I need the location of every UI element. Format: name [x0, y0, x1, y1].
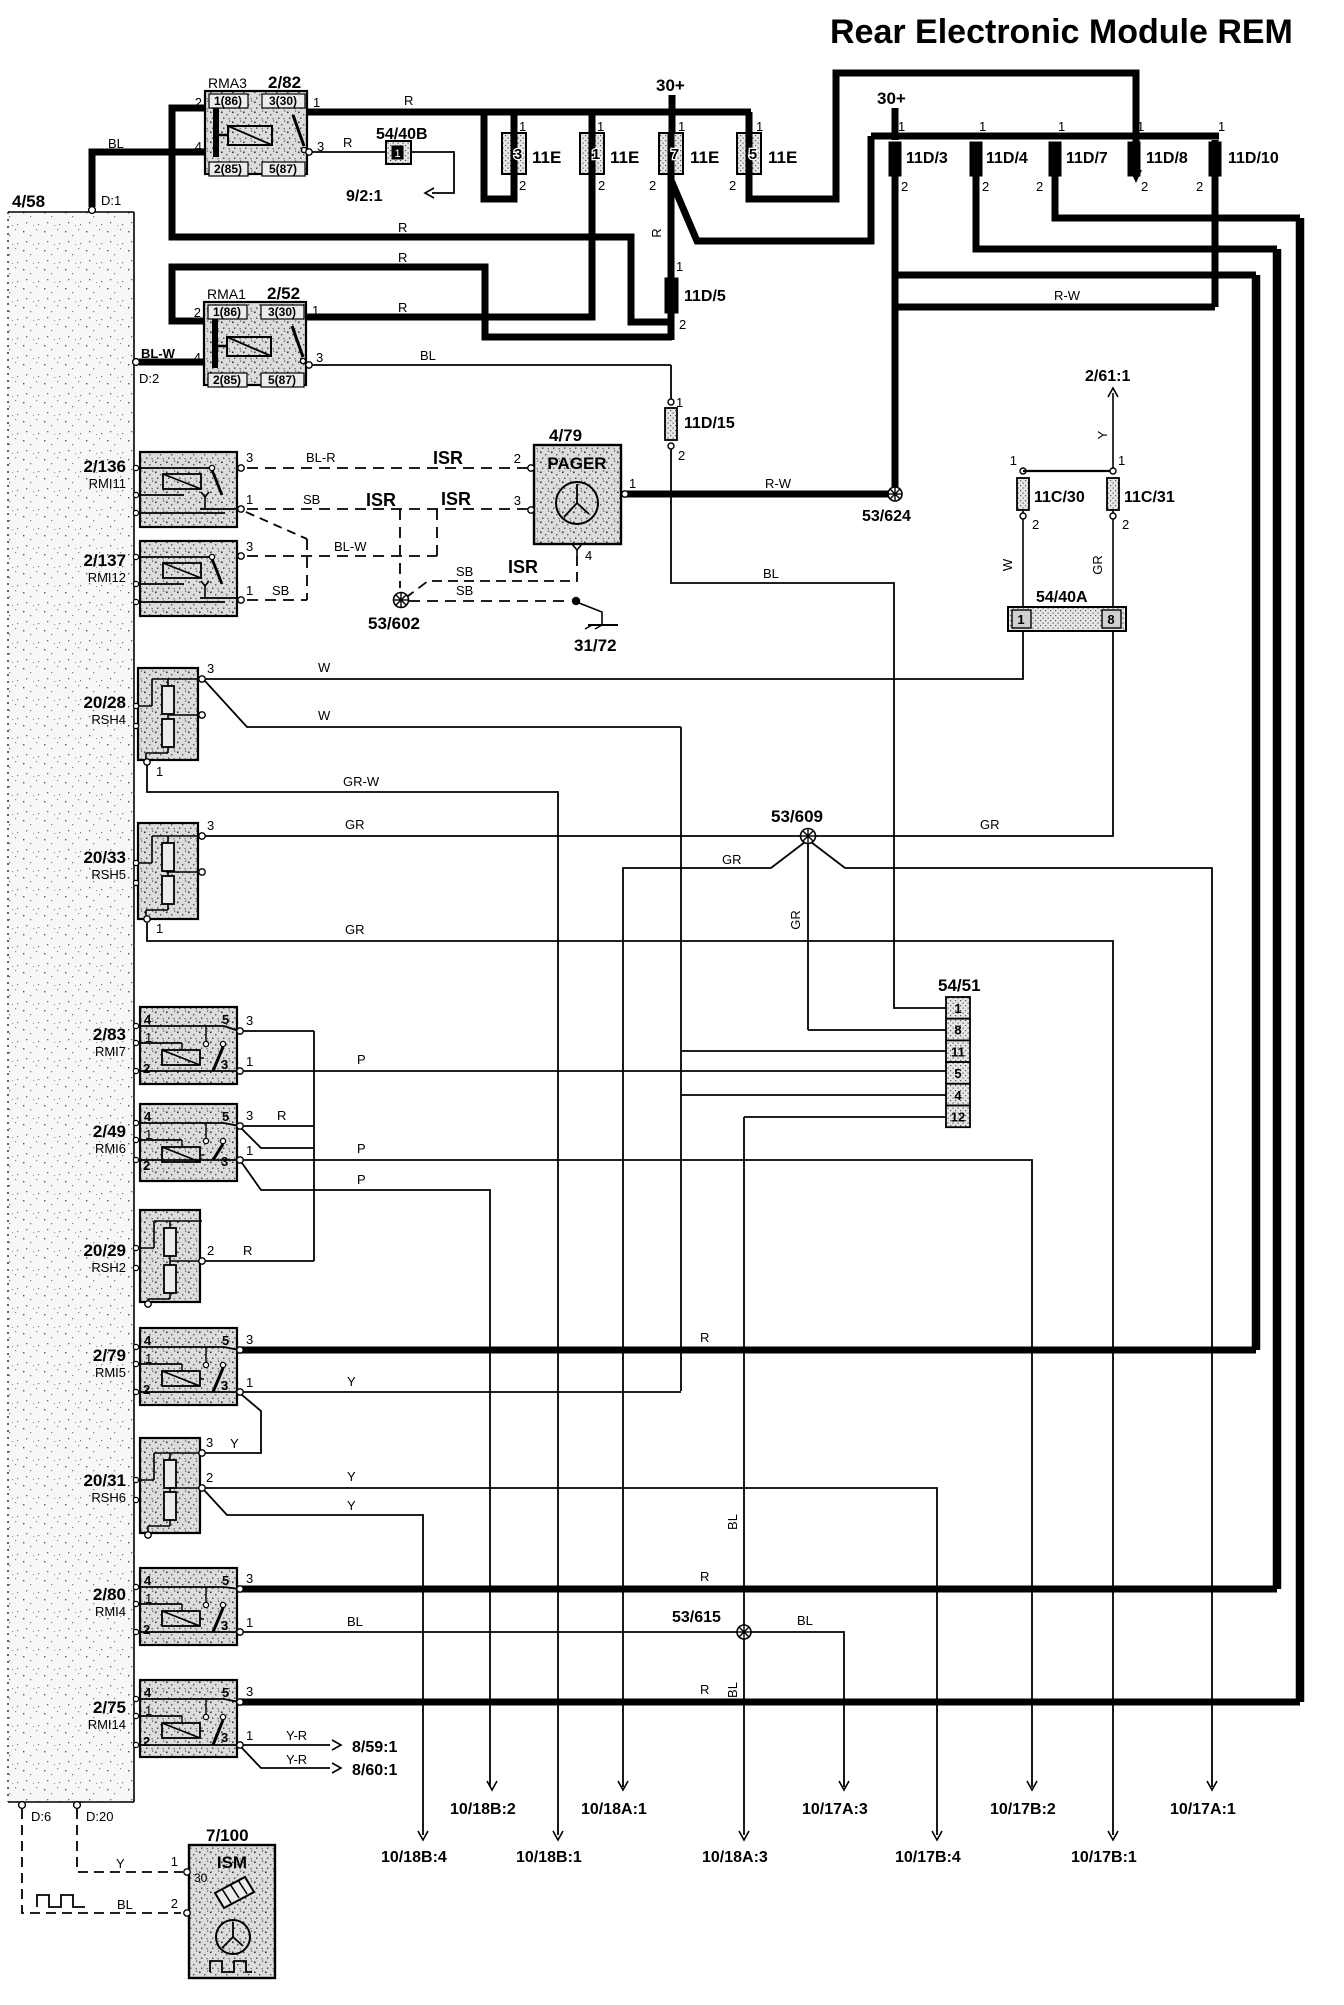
- svg-text:D:2: D:2: [139, 371, 159, 386]
- 54/51 pin 11: [946, 1040, 970, 1062]
- arrow to 10/18A:3: [739, 1831, 749, 1840]
- svg-text:RMA3: RMA3: [208, 75, 247, 91]
- svg-text:R-W: R-W: [1054, 288, 1081, 303]
- svg-text:2: 2: [1036, 179, 1043, 194]
- svg-text:12: 12: [951, 1110, 965, 1125]
- switch contact of 2/137: [209, 554, 214, 559]
- svg-text:R: R: [398, 220, 407, 235]
- svg-text:5: 5: [222, 1685, 229, 1700]
- svg-text:54/40A: 54/40A: [1036, 589, 1088, 606]
- svg-text:30: 30: [194, 1871, 208, 1885]
- svg-text:R: R: [404, 93, 413, 108]
- svg-text:2: 2: [514, 451, 521, 466]
- resistor module 20/29: [140, 1210, 200, 1302]
- svg-text:2: 2: [678, 448, 685, 463]
- svg-text:R: R: [649, 228, 664, 237]
- svg-text:8/59:1: 8/59:1: [352, 1739, 397, 1756]
- wire R: 20/29 pin 2 to riser: [205, 1260, 314, 1262]
- splice 53/609: [801, 829, 816, 844]
- svg-text:RMI14: RMI14: [88, 1717, 126, 1732]
- svg-text:BL: BL: [420, 348, 436, 363]
- wire BL: 2/80 pin 1 through splice 53/615 to 10/17A:3: [243, 1632, 844, 1787]
- svg-text:RSH5: RSH5: [91, 867, 126, 882]
- svg-text:1: 1: [171, 1854, 178, 1869]
- svg-text:10/18B:2: 10/18B:2: [450, 1801, 516, 1818]
- svg-text:3: 3: [246, 1013, 253, 1028]
- relay module 2/75: [140, 1680, 237, 1757]
- svg-text:2/80: 2/80: [93, 1585, 126, 1604]
- svg-text:2(85): 2(85): [213, 373, 241, 387]
- wire W: 20/28 pin 3 diagonal branch to 54/51 pin 11 riser: [205, 681, 681, 727]
- svg-text:10/18B:1: 10/18B:1: [516, 1849, 582, 1866]
- svg-text:2/75: 2/75: [93, 1698, 126, 1717]
- svg-text:1: 1: [394, 148, 400, 160]
- svg-text:1: 1: [676, 259, 683, 274]
- svg-text:3: 3: [246, 1332, 253, 1347]
- fuse 11C/31: [1110, 468, 1116, 474]
- svg-text:1: 1: [156, 921, 163, 936]
- svg-text:11D/5: 11D/5: [684, 288, 726, 305]
- svg-text:1: 1: [246, 1728, 253, 1743]
- coil of 2/80: [162, 1611, 200, 1626]
- svg-text:4: 4: [144, 1012, 152, 1027]
- svg-text:BL: BL: [763, 566, 779, 581]
- svg-text:4: 4: [144, 1685, 152, 1700]
- fuse 11E (element 5): [737, 133, 761, 174]
- wire R: 2/49 pin 3: [243, 1125, 314, 1127]
- svg-text:R: R: [700, 1682, 709, 1697]
- wire SB: switch 2/137 pin 1 to junction: [247, 599, 307, 601]
- svg-text:ISR: ISR: [366, 490, 396, 510]
- svg-text:1: 1: [1118, 453, 1125, 468]
- relay module 2/83: [140, 1007, 237, 1084]
- arrow to 10/18B:2: [487, 1781, 497, 1790]
- svg-text:2: 2: [194, 305, 201, 320]
- svg-text:2/82: 2/82: [268, 73, 301, 92]
- svg-text:2: 2: [207, 1243, 214, 1258]
- svg-text:10/17B:1: 10/17B:1: [1071, 1849, 1137, 1866]
- svg-text:2: 2: [729, 178, 736, 193]
- svg-text:Y-R: Y-R: [286, 1752, 307, 1767]
- wire W: 54/40A pin 1 to 20/28 pin 3: [205, 631, 1023, 679]
- svg-text:3: 3: [246, 539, 253, 554]
- svg-text:RMI12: RMI12: [88, 570, 126, 585]
- wire BL from 4/58 D:1 up to relay 2/82 pin 4: [92, 152, 205, 207]
- fuse 11E (element 7): [659, 133, 683, 174]
- switch module 2/136: [140, 452, 237, 527]
- wire GR: splice 53/609 left branch to 10/18A:1: [623, 842, 805, 1787]
- ECU module 4/58 (REM connector housing): [8, 212, 134, 1802]
- svg-text:8: 8: [1107, 612, 1114, 627]
- switch contact of 2/49: [203, 1138, 208, 1143]
- arrow to 10/17A:3: [839, 1781, 849, 1790]
- svg-text:5: 5: [222, 1333, 229, 1348]
- svg-text:2: 2: [143, 1622, 150, 1637]
- fuse 11E (element 1): [580, 133, 604, 174]
- svg-text:1: 1: [592, 146, 600, 163]
- fuse 11D/7: [1049, 142, 1061, 176]
- svg-text:30+: 30+: [656, 76, 685, 95]
- svg-text:10/18A:3: 10/18A:3: [702, 1849, 768, 1866]
- svg-text:Y-R: Y-R: [286, 1728, 307, 1743]
- svg-text:SB: SB: [456, 583, 473, 598]
- wire R-W: 11D row to splice 53/624 and pager 4/79 pin 1: [895, 304, 1215, 311]
- switch contact of 2/52: [292, 326, 303, 357]
- svg-text:54/51: 54/51: [938, 976, 981, 995]
- svg-text:1: 1: [246, 1615, 253, 1630]
- pin D:6 of 4/58: [19, 1802, 26, 1809]
- fuse 11D/5: [665, 278, 678, 313]
- wire R: fuse 11E-7 diagonal to 11D bus riser: [671, 136, 871, 241]
- svg-text:R: R: [398, 250, 407, 265]
- svg-text:2: 2: [519, 178, 526, 193]
- svg-text:Y: Y: [347, 1498, 356, 1513]
- 54/51 pin 1: [946, 997, 970, 1019]
- wire GR: 20/33 pin 3 to 54/40A pin 8 via splice 53/609: [205, 631, 1113, 836]
- svg-text:8/60:1: 8/60:1: [352, 1762, 397, 1779]
- 54/51 pin 5: [946, 1062, 970, 1084]
- riser x=681: W branch down to 54/51 pin 11 / pin 4 and Y of 2/79 pin 1: [680, 727, 682, 1391]
- svg-text:10/17A:1: 10/17A:1: [1170, 1801, 1236, 1818]
- connector 54/40A: [1008, 607, 1126, 631]
- pager clock symbol: [556, 482, 598, 524]
- svg-text:31/72: 31/72: [574, 636, 617, 655]
- fuse 11D/10: [1209, 142, 1221, 176]
- 11D fuse top bus with 30+ feed no.2: [871, 133, 1219, 140]
- pin D:1 of 4/58: [89, 207, 96, 214]
- svg-text:GR: GR: [788, 910, 803, 930]
- svg-text:R: R: [398, 300, 407, 315]
- svg-text:BL-R: BL-R: [306, 450, 336, 465]
- ISM siren symbol: [215, 1877, 254, 1908]
- svg-text:5: 5: [954, 1066, 961, 1081]
- 54/51 pin 4: [946, 1084, 970, 1106]
- resistors of 20/31: [164, 1460, 176, 1488]
- resistors of 20/33: [162, 843, 174, 871]
- svg-text:2: 2: [171, 1896, 178, 1911]
- svg-text:GR: GR: [980, 817, 1000, 832]
- svg-text:D:6: D:6: [31, 1809, 51, 1824]
- svg-text:3: 3: [246, 450, 253, 465]
- riser x=314 joining 2/83 pin3, 2/49 pin3, 20/29 pin 2: [313, 1031, 315, 1261]
- svg-text:2: 2: [143, 1382, 150, 1397]
- fuse 11D/4: [970, 142, 982, 176]
- svg-text:W: W: [318, 660, 331, 675]
- wire P: 2/49 pin 1 to 10/17B:2: [243, 1160, 1032, 1787]
- svg-text:4: 4: [144, 1109, 152, 1124]
- svg-text:BL-W: BL-W: [141, 346, 176, 361]
- svg-text:1: 1: [246, 1054, 253, 1069]
- svg-text:P: P: [357, 1172, 366, 1187]
- svg-text:2(85): 2(85): [214, 162, 242, 176]
- arrow to 10/18A:1: [618, 1781, 628, 1790]
- relay module 2/79: [140, 1328, 237, 1405]
- svg-text:R: R: [277, 1108, 286, 1123]
- relay 2/52 pin 3 wire BL to fuse 11D/15: [306, 362, 312, 368]
- switch module 2/137: [140, 541, 237, 616]
- svg-text:10/17B:2: 10/17B:2: [990, 1801, 1056, 1818]
- fuse 11E (element 3): [502, 133, 526, 174]
- svg-text:20/28: 20/28: [83, 693, 126, 712]
- svg-text:3: 3: [221, 1057, 228, 1072]
- wire: fuse 11E-5 bottom loop over 30+ to fuse 11D/8 pin 2: [749, 73, 1136, 199]
- arrow to 10/17B:2: [1027, 1781, 1037, 1790]
- wire R: relay 2/52 pin 1 to fuse 11E-1 bottom (vertical x=592): [306, 116, 592, 317]
- svg-text:R: R: [343, 135, 352, 150]
- svg-text:3(30): 3(30): [268, 305, 296, 319]
- ISM pulse symbol: [210, 1961, 252, 1972]
- svg-text:GR: GR: [345, 922, 365, 937]
- svg-text:RSH4: RSH4: [91, 712, 126, 727]
- svg-text:2/137: 2/137: [83, 551, 126, 570]
- svg-text:Y: Y: [347, 1469, 356, 1484]
- svg-text:2: 2: [1141, 179, 1148, 194]
- svg-text:53/609: 53/609: [771, 807, 823, 826]
- wire ISR/SB: pager pin 4 elbow to splice 53/602: [408, 556, 577, 596]
- wire R-W: pager 4/79 pin 1 to splice 53/624: [623, 491, 895, 498]
- wire P: 2/83 pin 1 to 54/51 pin 5: [243, 1070, 946, 1072]
- relay 2/52 (RMA1): [204, 302, 306, 385]
- svg-text:1: 1: [246, 1375, 253, 1390]
- svg-text:2: 2: [1196, 179, 1203, 194]
- svg-text:R-W: R-W: [765, 476, 792, 491]
- relay 2/82 pin 3 output wire R to connector 54/40B and 9/2:1: [306, 149, 312, 155]
- svg-text:4/79: 4/79: [549, 426, 582, 445]
- switch contact of 2/136: [209, 465, 214, 470]
- svg-text:2: 2: [206, 1470, 213, 1485]
- svg-text:11D/8: 11D/8: [1146, 150, 1188, 167]
- svg-text:3: 3: [246, 1684, 253, 1699]
- pointed wire tip at fuse 11D/8 pin 2: [1130, 170, 1142, 183]
- svg-text:1: 1: [954, 1001, 961, 1016]
- svg-text:5: 5: [222, 1012, 229, 1027]
- svg-text:Y: Y: [1095, 430, 1110, 439]
- svg-text:3(30): 3(30): [269, 94, 297, 108]
- svg-text:R: R: [700, 1569, 709, 1584]
- wire Y-R: 2/75 pin 1 to 8/59:1: [243, 1744, 330, 1746]
- ISM clock symbol: [216, 1920, 250, 1954]
- svg-text:11E: 11E: [610, 148, 639, 167]
- wire R: relay 2/52 pin 2 loop to fuse 11D/5 pin 2: [172, 267, 672, 337]
- wire GR: splice 53/609 right branch to 10/17A:1: [811, 842, 1212, 1787]
- svg-text:53/602: 53/602: [368, 614, 420, 633]
- resistor module 20/31: [140, 1438, 200, 1533]
- svg-text:1(86): 1(86): [213, 305, 241, 319]
- svg-text:2: 2: [982, 179, 989, 194]
- svg-text:2/49: 2/49: [93, 1122, 126, 1141]
- resistors of 20/29: [164, 1228, 176, 1256]
- svg-text:4: 4: [144, 1573, 152, 1588]
- svg-text:4: 4: [144, 1333, 152, 1348]
- fuse 11D/8: [1128, 142, 1140, 176]
- wire BL-W: switch 2/137 pin 3 right and up to ISR line: [247, 555, 437, 557]
- svg-text:11D/7: 11D/7: [1066, 150, 1108, 167]
- splice 53/602: [394, 593, 409, 608]
- wire R: fuse 11E-7 down to fuse 11D/5: [668, 136, 675, 340]
- connector 54/40B: [386, 141, 411, 164]
- arrow to 10/18B:1: [553, 1831, 563, 1840]
- wire SB: splice 53/602 to ground lead: [409, 600, 570, 602]
- svg-text:2: 2: [1032, 517, 1039, 532]
- svg-text:BL: BL: [108, 136, 124, 151]
- svg-text:3: 3: [206, 1435, 213, 1450]
- resistor module 20/33: [138, 823, 198, 919]
- wire Y dashed: 4/58 D:20 to ISM pin 1: [77, 1809, 183, 1872]
- arrow to 10/17A:1: [1207, 1781, 1217, 1790]
- resistor module 20/28: [138, 668, 198, 760]
- svg-text:11D/4: 11D/4: [986, 150, 1028, 167]
- svg-text:1: 1: [979, 119, 986, 134]
- wire: 2/49 pin 3 diagonal branch: [242, 1129, 314, 1148]
- svg-text:3: 3: [207, 818, 214, 833]
- svg-text:2/52: 2/52: [267, 284, 300, 303]
- svg-text:5: 5: [749, 146, 757, 163]
- wire: 11D/10 pin 2 down joining R-W feed: [1212, 140, 1219, 307]
- svg-text:1: 1: [313, 95, 320, 110]
- svg-text:3: 3: [246, 1108, 253, 1123]
- svg-text:ISR: ISR: [433, 448, 463, 468]
- svg-text:11D/15: 11D/15: [684, 415, 735, 432]
- svg-text:5(87): 5(87): [268, 373, 296, 387]
- svg-text:1: 1: [597, 119, 604, 134]
- wire BL: fuse 11D/15 pin 2 down, right, down to connector 54/51 pin 1: [671, 449, 946, 1008]
- svg-text:3: 3: [246, 1571, 253, 1586]
- svg-text:2: 2: [1122, 517, 1129, 532]
- svg-text:3: 3: [221, 1730, 228, 1745]
- pin D:2 of 4/58: [133, 359, 140, 366]
- pager pin 3: [528, 507, 534, 513]
- svg-text:5: 5: [222, 1573, 229, 1588]
- svg-text:3: 3: [221, 1154, 228, 1169]
- svg-text:BL: BL: [725, 1682, 740, 1698]
- fuse 11C/30: [1020, 468, 1026, 474]
- svg-text:1: 1: [1017, 612, 1024, 627]
- svg-text:20/31: 20/31: [83, 1471, 126, 1490]
- svg-text:2: 2: [143, 1734, 150, 1749]
- svg-text:RMA1: RMA1: [207, 286, 246, 302]
- svg-text:RMI7: RMI7: [95, 1044, 126, 1059]
- coil of 2/136: [163, 474, 201, 489]
- svg-text:53/624: 53/624: [862, 508, 911, 525]
- svg-text:BL-W: BL-W: [334, 539, 367, 554]
- svg-text:2: 2: [901, 179, 908, 194]
- svg-text:P: P: [357, 1141, 366, 1156]
- pager pin 4: [572, 544, 582, 550]
- wire Y to 2/61:1 arrow: [1112, 393, 1114, 468]
- svg-text:2: 2: [195, 95, 202, 110]
- svg-text:20/33: 20/33: [83, 848, 126, 867]
- ISM pin 2: [184, 1910, 190, 1916]
- svg-text:3: 3: [221, 1618, 228, 1633]
- svg-text:SB: SB: [272, 583, 289, 598]
- svg-text:R: R: [243, 1243, 252, 1258]
- svg-text:1: 1: [246, 583, 253, 598]
- svg-text:D:1: D:1: [101, 193, 121, 208]
- svg-text:10/18A:1: 10/18A:1: [581, 1801, 647, 1818]
- wire SB: diagonal from 2/136 pin 1 down to 2/137 pin 1 line: [246, 512, 307, 539]
- svg-text:2/61:1: 2/61:1: [1085, 368, 1130, 385]
- 54/51 pin 12: [946, 1106, 970, 1128]
- svg-text:11: 11: [951, 1044, 965, 1059]
- svg-text:3: 3: [514, 493, 521, 508]
- wire: 11D/3 branch right to long riser (to relay 2/79 pin 3): [895, 272, 1256, 279]
- wire P: 2/49 pin 1 diagonal branch to 10/18B:2: [242, 1163, 490, 1787]
- coil of 2/82: [228, 126, 272, 145]
- svg-text:2/83: 2/83: [93, 1025, 126, 1044]
- coil of 2/52: [227, 337, 271, 356]
- wire R continue from 54/40B to arrow 9/2:1: [411, 152, 454, 193]
- svg-text:Y: Y: [230, 1436, 239, 1451]
- 54/51 pin 8: [946, 1019, 970, 1041]
- resistors of 20/28: [162, 686, 174, 714]
- svg-text:30+: 30+: [877, 89, 906, 108]
- svg-text:RMI11: RMI11: [89, 476, 126, 491]
- svg-text:GR: GR: [722, 852, 742, 867]
- relay 2/82 (RMA3): [205, 91, 307, 174]
- switch contact of 2/80: [203, 1602, 208, 1607]
- svg-text:RMI4: RMI4: [95, 1604, 126, 1619]
- switch contact of 2/83: [203, 1041, 208, 1046]
- svg-text:4/58: 4/58: [12, 192, 45, 211]
- svg-text:Rear Electronic Module REM: Rear Electronic Module REM: [830, 13, 1293, 51]
- wire: 11D/3 pin 2 down to splice 53/624: [892, 176, 899, 487]
- svg-text:7: 7: [671, 146, 679, 163]
- svg-text:GR-W: GR-W: [343, 774, 380, 789]
- relay module 2/80: [140, 1568, 237, 1645]
- svg-text:2: 2: [649, 178, 656, 193]
- wire SB / ISR : switch 2/136 pin 1 to pager pin 3: [247, 508, 528, 510]
- svg-text:PAGER: PAGER: [547, 454, 606, 473]
- svg-text:P: P: [357, 1052, 366, 1067]
- svg-text:GR: GR: [345, 817, 365, 832]
- svg-text:1: 1: [519, 119, 526, 134]
- switch contact of 2/75: [203, 1714, 208, 1719]
- svg-text:BL: BL: [347, 1614, 363, 1629]
- wire GR: 20/33 pin 1 to 10/17B:1: [147, 923, 1113, 1835]
- svg-text:4: 4: [585, 548, 592, 563]
- relay module 2/49: [140, 1104, 237, 1181]
- svg-text:1: 1: [629, 476, 636, 491]
- svg-text:1: 1: [312, 303, 319, 318]
- svg-text:R: R: [700, 1330, 709, 1345]
- wire SB: drop from ISR line to splice 53/602: [399, 509, 401, 588]
- svg-text:11E: 11E: [690, 148, 719, 167]
- fuse 11D/3: [889, 142, 901, 176]
- svg-text:54/40B: 54/40B: [376, 126, 428, 143]
- wire BL: 54/51 pin 12 down through splice 53/615 to 10/18A:3: [744, 1116, 946, 1118]
- svg-text:20/29: 20/29: [83, 1241, 126, 1260]
- svg-text:2: 2: [598, 178, 605, 193]
- fuse 11D/15: [668, 399, 674, 405]
- svg-text:SB: SB: [303, 492, 320, 507]
- pin D:20 of 4/58: [74, 1802, 81, 1809]
- svg-text:11E: 11E: [768, 148, 797, 167]
- wire R: relay 2/82 pin 1 to 30+ fuse bus 11E row: [307, 109, 751, 116]
- svg-text:RMI5: RMI5: [95, 1365, 126, 1380]
- svg-text:Y: Y: [347, 1374, 356, 1389]
- coil of 2/79: [162, 1371, 200, 1386]
- svg-text:8: 8: [954, 1023, 961, 1038]
- svg-text:4: 4: [954, 1088, 962, 1103]
- svg-text:Y: Y: [116, 1856, 125, 1871]
- pager pin 1 (R-W output): [622, 491, 628, 497]
- coil of 2/83: [162, 1050, 200, 1065]
- svg-text:1: 1: [756, 119, 763, 134]
- ground 31/72: [579, 603, 602, 624]
- svg-text:10/18B:4: 10/18B:4: [381, 1849, 447, 1866]
- wire GR: splice 53/609 branch down to 54/51 pin 8: [807, 843, 809, 1030]
- svg-text:10/17A:3: 10/17A:3: [802, 1801, 868, 1818]
